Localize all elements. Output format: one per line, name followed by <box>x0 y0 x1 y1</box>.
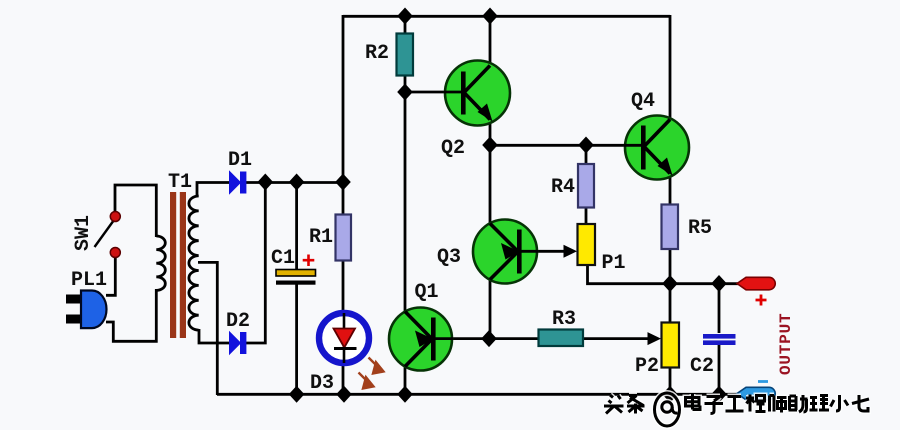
node junction P2 bottom rail <box>662 386 678 403</box>
wire D2 cathode up to node A <box>245 182 265 343</box>
wire node B to Q4 base <box>489 144 642 147</box>
svg-text:R4: R4 <box>551 176 575 199</box>
wire Q2 base from R2 node <box>404 91 463 94</box>
svg-text:R2: R2 <box>365 42 389 65</box>
transistor Q2 <box>444 61 510 126</box>
plug PL1 prong top <box>66 295 82 304</box>
switch SW1 contact top <box>110 212 120 222</box>
wire R3 to P2 wiper <box>583 337 651 340</box>
wire R4 top stub <box>585 145 588 165</box>
wire R5 bottom to node C <box>669 249 672 283</box>
wire primary bottom to plug <box>106 289 156 341</box>
wire plug top to SW1 bottom <box>106 253 115 295</box>
potentiometer P1 wiper arrow <box>564 245 578 258</box>
svg-text:C2: C2 <box>690 355 714 378</box>
svg-text:D3: D3 <box>310 372 334 395</box>
LED D3 vertical lead <box>343 313 346 363</box>
watermark halo <box>604 393 869 426</box>
node junction R1 top <box>335 174 351 191</box>
svg-text:P1: P1 <box>602 252 626 275</box>
resistor R5 <box>662 205 679 250</box>
transformer T1 primary coil <box>156 236 165 290</box>
svg-text:P2: P2 <box>635 355 659 378</box>
wire P1 bottom to node C <box>588 264 671 284</box>
wire R2 bottom down to Q1 collector <box>404 74 407 315</box>
wire Q4 emitter down to R5 <box>669 173 672 205</box>
transformer T1 secondary coil <box>189 196 199 330</box>
capacitor C1 plus sign <box>303 255 315 267</box>
svg-text:R1: R1 <box>309 226 333 249</box>
node junction C2 bottom rail <box>711 386 727 403</box>
transformer T1 core bars <box>170 192 176 338</box>
svg-text:R3: R3 <box>552 308 576 331</box>
wire node B down to Q3 collector <box>489 145 492 226</box>
LED D3 light arrows <box>359 358 384 389</box>
node junction Q1 emitter bottom rail <box>397 386 413 403</box>
plus output terminal <box>737 277 775 290</box>
wire secondary top to D1 <box>197 183 230 198</box>
watermark strokes <box>604 393 869 426</box>
wire C2 top stub <box>718 283 721 333</box>
svg-text:Q3: Q3 <box>437 246 461 269</box>
wire R1 bottom to D3 <box>342 260 345 312</box>
wire Q3 emitter down to node D <box>489 278 492 339</box>
transistor Q1 <box>389 308 453 371</box>
switch SW1 lever <box>95 220 115 247</box>
wire Q4 collector up to top rail <box>669 15 672 122</box>
plus sign <box>756 295 767 306</box>
svg-text:D1: D1 <box>228 149 252 172</box>
wire secondary bottom to D2 <box>199 329 230 343</box>
potentiometer P2 wiper arrow <box>648 332 662 345</box>
wire R4 to P1 stub <box>585 207 588 225</box>
svg-text:R5: R5 <box>688 217 712 240</box>
node junction C1 bottom rail <box>289 386 305 403</box>
resistor R1 <box>336 215 352 261</box>
wire C2 bottom stub <box>718 343 721 394</box>
wire primary top via SW1 <box>115 185 156 237</box>
svg-text:OUTPUT: OUTPUT <box>777 313 795 375</box>
wire node A down to C1 <box>295 182 298 270</box>
wire Q3 base to P1 wiper <box>521 250 566 253</box>
switch SW1 contact bottom <box>110 248 120 258</box>
wire Q1 base to node D <box>434 337 538 340</box>
node D junction Q1 base <box>481 330 497 347</box>
LED D3 ring <box>319 313 369 363</box>
svg-text:SW1: SW1 <box>72 215 95 251</box>
node junction R2 bottom <box>397 84 413 101</box>
node junction top rail R2 <box>397 8 413 25</box>
minus output terminal <box>737 387 775 400</box>
resistor R4 <box>578 164 594 208</box>
svg-text:C1: C1 <box>271 247 295 270</box>
minus sign <box>758 380 768 383</box>
svg-text:Q2: Q2 <box>441 137 465 160</box>
transistor Q4 <box>624 116 689 180</box>
potentiometer P1 <box>578 224 596 265</box>
node junction top rail Q2 <box>482 8 498 25</box>
wire R2 top stub <box>404 15 407 35</box>
node A junction (D1 cathode) <box>258 174 274 191</box>
wire top rail <box>343 15 670 18</box>
transistor Q3 <box>473 220 538 284</box>
wire Q1 emitter down to bottom rail <box>404 366 407 394</box>
svg-text:PL1: PL1 <box>71 269 107 292</box>
wire Q2 emitter down to node B <box>489 119 492 146</box>
diode D1 <box>230 172 247 194</box>
wire P2 bottom to bottom rail <box>669 368 672 394</box>
capacitor C2 <box>703 334 736 345</box>
plug PL1 prong bottom <box>66 315 82 324</box>
node B junction Q2 emitter <box>482 137 498 154</box>
svg-text:Q1: Q1 <box>415 281 439 304</box>
wire top-rail corner down to R1 <box>342 15 345 216</box>
node junction D3 bottom rail <box>336 386 352 403</box>
wire Q2 collector up to top rail <box>489 15 492 67</box>
wire D3 bottom to bottom rail <box>342 364 345 394</box>
svg-text:D2: D2 <box>226 310 250 333</box>
node junction C2 top <box>711 275 727 292</box>
wire node C down to P2 <box>669 283 672 323</box>
resistor R3 <box>539 330 584 347</box>
node C junction R5 bottom <box>662 275 678 292</box>
svg-text:T1: T1 <box>168 171 192 194</box>
wire C1 bottom to bottom rail <box>295 284 298 394</box>
node junction C1 top <box>289 174 305 191</box>
svg-text:Q4: Q4 <box>631 90 655 113</box>
plug PL1 body <box>81 291 107 329</box>
wire bottom rail <box>217 393 740 396</box>
wire node C to plus terminal <box>670 282 738 285</box>
LED D3 cathode bar <box>334 347 357 350</box>
capacitor C1 <box>276 270 316 285</box>
wire transformer center tap to bottom rail <box>198 262 217 395</box>
wire D1 cathode to node A <box>246 181 344 184</box>
potentiometer P2 <box>662 323 680 368</box>
LED D3 triangle <box>334 329 356 348</box>
diode D2 <box>230 332 247 354</box>
resistor R2 <box>397 34 414 76</box>
node junction R4 top <box>578 137 594 154</box>
